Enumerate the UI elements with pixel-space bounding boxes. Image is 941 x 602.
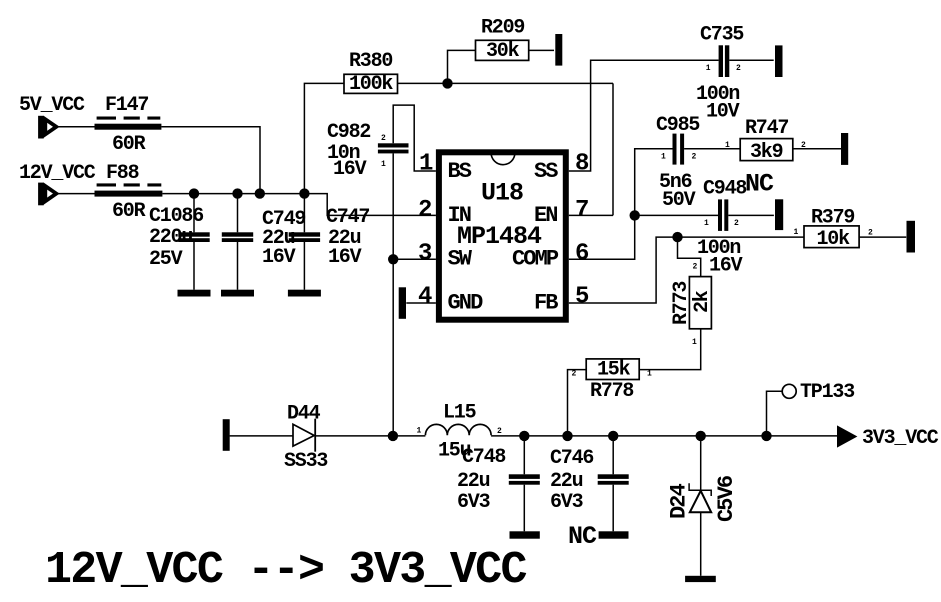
svg-text:1: 1 — [794, 228, 799, 237]
svg-text:12V_VCC: 12V_VCC — [19, 162, 96, 185]
svg-text:R747: R747 — [745, 117, 788, 140]
capacitor C985 — [656, 114, 699, 212]
svg-text:SS33: SS33 — [284, 450, 327, 473]
wire L15 to output arrow — [491, 435, 837, 437]
node FB junction — [672, 232, 682, 242]
svg-text:7: 7 — [575, 197, 588, 224]
svg-text:6V3: 6V3 — [550, 491, 583, 514]
ground bar C948 — [775, 199, 783, 230]
svg-text:GND: GND — [448, 290, 484, 315]
svg-text:1: 1 — [647, 370, 652, 379]
svg-text:22u: 22u — [457, 470, 490, 493]
wire COMP to C948 — [635, 214, 718, 216]
svg-text:U18: U18 — [481, 178, 523, 207]
diode D24 zener — [667, 436, 740, 576]
svg-text:R380: R380 — [349, 50, 392, 73]
svg-text:D24: D24 — [667, 483, 692, 519]
svg-text:4: 4 — [418, 284, 432, 311]
wire pin3 SW — [393, 258, 436, 260]
svg-text:R209: R209 — [481, 17, 524, 40]
svg-text:1: 1 — [661, 153, 666, 162]
ground bar R747 — [841, 133, 848, 165]
svg-text:1: 1 — [419, 151, 433, 178]
wire C735 to ground bar — [729, 59, 773, 61]
svg-text:1: 1 — [706, 64, 711, 73]
svg-text:L15: L15 — [443, 402, 476, 425]
ground bar C735 — [775, 45, 783, 77]
svg-text:1: 1 — [725, 141, 730, 150]
ground bar R379 — [907, 221, 916, 253]
svg-text:SS: SS — [534, 159, 558, 184]
svg-text:3V3_VCC: 3V3_VCC — [862, 427, 939, 450]
wire BS pin1 to C982 — [393, 105, 436, 171]
ground bar D24 — [685, 576, 716, 582]
svg-text:C1086: C1086 — [149, 205, 203, 228]
svg-text:12V_VCC --> 3V3_VCC: 12V_VCC --> 3V3_VCC — [45, 545, 526, 596]
svg-text:2k: 2k — [691, 290, 714, 313]
svg-text:NC: NC — [745, 170, 774, 199]
svg-text:BS: BS — [448, 159, 472, 184]
ground C1086 — [178, 290, 211, 297]
svg-text:2: 2 — [868, 229, 873, 238]
wire R380 to EN column — [398, 82, 614, 84]
node D24 junction — [696, 431, 706, 441]
wire EN drop — [612, 83, 614, 215]
svg-text:16V: 16V — [333, 158, 367, 181]
wire pin6 COMP — [569, 149, 673, 259]
node R778 junction — [562, 431, 572, 441]
capacitor C746 — [550, 436, 629, 531]
capacitor C948 — [697, 170, 774, 278]
svg-text:16V: 16V — [328, 246, 362, 269]
svg-text:1: 1 — [692, 338, 697, 347]
svg-text:2: 2 — [572, 370, 577, 379]
wire rail to R380 — [304, 83, 344, 193]
svg-text:5: 5 — [575, 284, 589, 311]
ground bar C748 — [510, 531, 540, 538]
ground bar D44 anode — [223, 419, 230, 451]
resistor R773 — [670, 277, 714, 329]
capacitor C748 — [457, 436, 540, 531]
capacitor C749 — [222, 194, 306, 290]
svg-text:TP133: TP133 — [800, 381, 854, 404]
svg-text:C985: C985 — [656, 114, 699, 137]
svg-text:2: 2 — [736, 64, 741, 73]
svg-text:10k: 10k — [817, 228, 851, 251]
wire bar to D44 — [230, 435, 293, 437]
svg-text:22u: 22u — [550, 470, 583, 493]
svg-text:50V: 50V — [662, 189, 696, 212]
capacitor C1086 — [149, 194, 210, 290]
svg-text:C735: C735 — [700, 24, 743, 47]
wire R209 to ground bar — [529, 49, 554, 51]
wire pin8 SS to C735 — [569, 60, 719, 171]
wire R773 to R778 — [639, 329, 701, 370]
wire FB to R379 — [678, 236, 805, 238]
svg-text:C746: C746 — [550, 447, 593, 470]
resistor R209 — [476, 17, 529, 64]
node TP133 junction — [761, 431, 771, 441]
svg-text:100k: 100k — [349, 73, 393, 96]
resistor R747 — [740, 117, 793, 164]
node C748 junction — [519, 431, 529, 441]
svg-text:30k: 30k — [486, 40, 520, 63]
wire pin7 EN — [569, 214, 613, 216]
diode D44 — [284, 403, 327, 473]
svg-text:2: 2 — [418, 197, 431, 224]
svg-text:6V3: 6V3 — [457, 491, 490, 514]
capacitor C747 — [289, 194, 370, 290]
svg-text:25V: 25V — [149, 248, 183, 271]
ground bar C746 — [599, 531, 629, 538]
wire R379 to ground bar — [859, 236, 906, 238]
svg-text:2: 2 — [734, 219, 739, 228]
port 3V3_VCC output arrow — [837, 425, 939, 450]
svg-text:C948: C948 — [703, 178, 746, 201]
svg-text:FB: FB — [534, 290, 558, 315]
fuse F147 — [95, 94, 162, 156]
ground C747 — [288, 290, 321, 297]
node 12V junction dots — [189, 188, 199, 198]
node SW junction — [388, 254, 398, 264]
fuse F88 — [95, 162, 163, 223]
svg-text:1: 1 — [704, 219, 709, 228]
wire 5V to F147 — [56, 126, 95, 128]
svg-text:SW: SW — [448, 247, 473, 272]
resistor R380 — [344, 50, 398, 96]
wire pin4 GND — [406, 302, 436, 304]
svg-text:IN: IN — [448, 203, 471, 228]
svg-text:C747: C747 — [326, 206, 369, 229]
wire up to R209 — [448, 50, 476, 83]
wire 12V to F88 — [56, 193, 95, 195]
svg-text:C5V6: C5V6 — [714, 476, 739, 522]
svg-text:2: 2 — [693, 263, 698, 272]
svg-text:NC: NC — [568, 522, 597, 551]
svg-text:2: 2 — [692, 153, 697, 162]
op-amp U18 MP1484 body — [439, 152, 566, 319]
svg-text:2: 2 — [497, 427, 502, 436]
wire C982 to SW node — [392, 153, 394, 436]
svg-text:8: 8 — [575, 151, 589, 178]
svg-text:2: 2 — [801, 141, 806, 150]
svg-text:6: 6 — [575, 241, 589, 268]
capacitor C735 — [696, 24, 743, 124]
node SW/L15 junction — [388, 431, 398, 441]
svg-text:10V: 10V — [706, 101, 740, 124]
port 5V_VCC — [19, 94, 85, 139]
inductor L15 — [417, 402, 503, 463]
svg-text:60R: 60R — [112, 200, 146, 223]
svg-text:60R: 60R — [112, 133, 146, 156]
svg-text:COMP: COMP — [512, 247, 559, 272]
svg-text:16V: 16V — [262, 246, 296, 269]
svg-text:1: 1 — [417, 427, 422, 436]
svg-text:16V: 16V — [709, 255, 743, 278]
wire FB node to R773 — [678, 237, 701, 277]
capacitor C982 — [327, 121, 409, 181]
svg-text:R778: R778 — [590, 380, 633, 403]
svg-text:5V_VCC: 5V_VCC — [19, 94, 85, 117]
resistor R778 — [586, 359, 639, 404]
wire D44 to SW node — [316, 435, 425, 437]
node COMP junction — [630, 210, 640, 220]
svg-text:C748: C748 — [462, 446, 505, 469]
svg-text:F88: F88 — [106, 162, 139, 185]
wire pin5 FB — [569, 237, 678, 303]
svg-text:2: 2 — [381, 134, 386, 143]
resistor R379 — [804, 207, 859, 251]
svg-text:220u: 220u — [149, 226, 192, 249]
wire F147 to bend — [161, 127, 260, 194]
ground bar R209 — [555, 34, 562, 66]
wire R747 to ground bar — [793, 148, 841, 150]
svg-text:C982: C982 — [327, 121, 370, 144]
svg-text:3k9: 3k9 — [750, 141, 783, 164]
wire 12V rail — [162, 194, 436, 216]
node C746 junction — [608, 431, 618, 441]
wire C985 to R747 — [684, 148, 740, 150]
svg-text:1: 1 — [381, 160, 386, 169]
ground C749 — [221, 290, 254, 297]
svg-text:EN: EN — [534, 203, 557, 228]
svg-text:15k: 15k — [597, 359, 631, 382]
wire R778 to output rail — [568, 370, 587, 436]
ground bar pin4 — [399, 287, 406, 319]
svg-text:F147: F147 — [105, 94, 148, 117]
node R380/R209 junction — [442, 78, 452, 88]
test point TP133 — [767, 381, 855, 436]
port 12V_VCC — [19, 162, 96, 205]
svg-text:3: 3 — [418, 241, 432, 268]
wire C948 to ground bar — [728, 214, 774, 216]
